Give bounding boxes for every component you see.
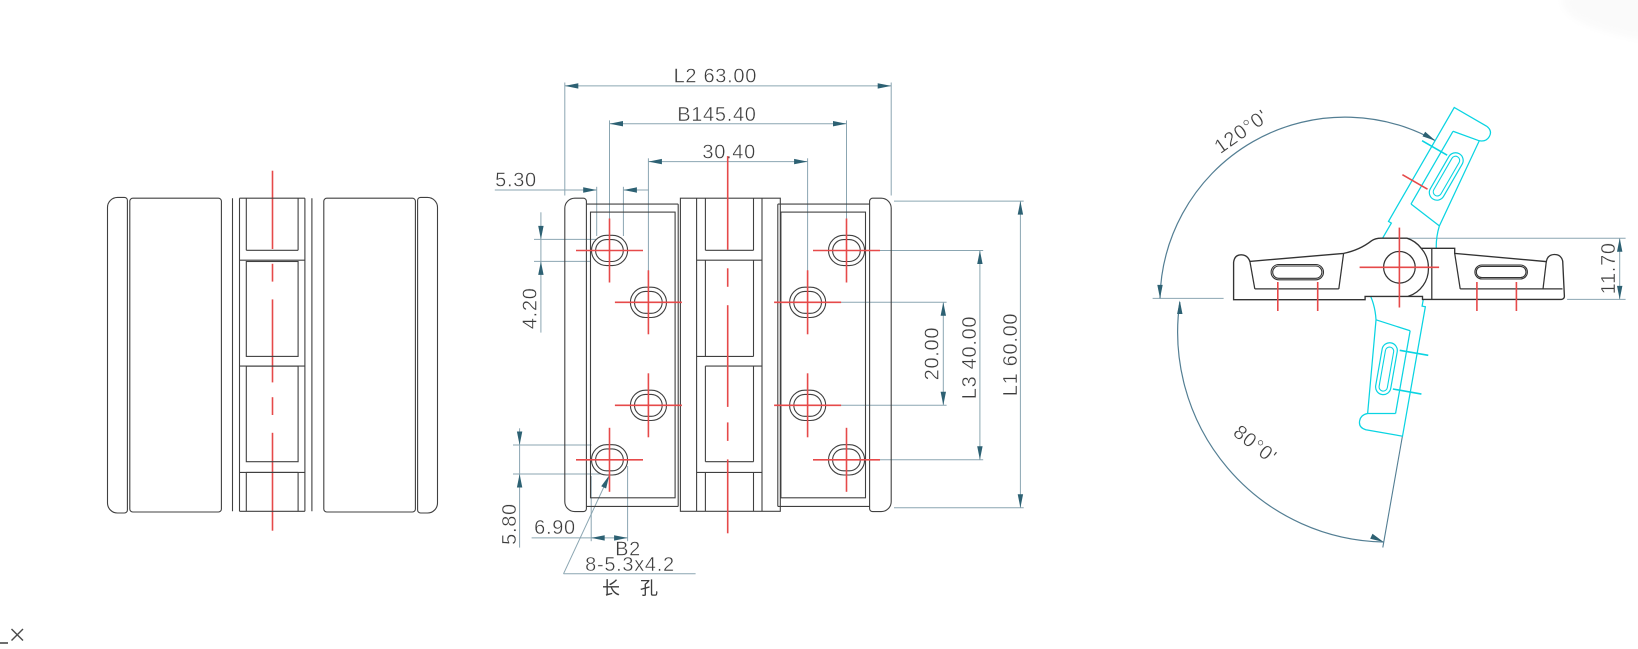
slot hole 8 outer — [829, 445, 865, 475]
dimension 30.40 line — [648, 161, 807, 163]
left view left leaf plate — [130, 198, 222, 512]
left view left plate inner line — [232, 198, 234, 511]
faint gray blob top right — [1562, 0, 1638, 40]
middle knuckle divider 6 — [697, 471, 762, 473]
middle knuckle divider 4 — [705, 365, 762, 367]
80 degree extension line (moving leaf face) — [1383, 436, 1403, 547]
dimension B145.40 line — [610, 123, 847, 125]
dimension 11.70 top extension — [1408, 237, 1626, 239]
profile left slot inner — [1273, 266, 1322, 278]
left view left edge capsule — [108, 197, 128, 513]
dimension 6.90 arrows — [591, 535, 605, 540]
dimension 30.40 arrows — [648, 159, 662, 164]
dimension 5.30 line right part — [623, 189, 649, 191]
slot hole 2 outer — [630, 287, 666, 317]
dimension 20.00 line — [942, 302, 944, 405]
middle view left capsule — [565, 198, 587, 511]
svg-text:4.20: 4.20 — [520, 287, 542, 329]
slot hole 5 inner — [833, 240, 861, 262]
dimension B145.40 left extension — [609, 120, 611, 231]
leader arrow — [601, 475, 609, 488]
dimension 11.70 arrows — [1617, 238, 1622, 252]
svg-text:5.30: 5.30 — [495, 170, 537, 192]
svg-text:8-5.3x4.2: 8-5.3x4.2 — [585, 554, 675, 576]
baseline extension left segment — [1153, 297, 1224, 299]
slot hole 5 outer — [829, 235, 865, 265]
middle knuckle red centerline — [727, 156, 729, 250]
svg-text:20.00: 20.00 — [922, 327, 944, 381]
slot hole 8 inner — [833, 449, 861, 471]
slot hole 7 red crosshair — [774, 404, 841, 406]
svg-text:孔: 孔 — [640, 579, 658, 599]
dimension L2 63.00 right extension — [890, 83, 892, 196]
dimension 30.40 right extension — [807, 158, 809, 279]
dimension L1 60.00 extension lines — [894, 200, 1024, 202]
profile red tick marks — [1277, 282, 1279, 311]
profile right slot inner — [1476, 266, 1526, 277]
80 degree arc arrows — [1177, 301, 1182, 315]
dimension B145.40 right extension — [846, 120, 848, 231]
svg-text:30.40: 30.40 — [702, 141, 756, 163]
dimension 4.20 arrows — [538, 226, 543, 240]
middle knuckle outer rect — [680, 198, 780, 511]
dimension 6.90 extension lines — [590, 476, 592, 541]
slot hole 6 inner — [794, 291, 822, 313]
left view red centerline — [272, 171, 274, 249]
slot hole 2 inner — [635, 291, 663, 313]
dimension 20.00 arrows — [941, 302, 946, 316]
middle knuckle segment verticals right — [753, 198, 755, 250]
left view top knuckle box — [245, 198, 247, 250]
cyan leaf rotated -80 degrees (open position) — [1343, 272, 1441, 438]
80 degree arc — [1178, 302, 1384, 542]
120 degree arc arrows — [1157, 285, 1162, 299]
dimension B145.40 arrows — [610, 121, 624, 126]
dimension 5.30 arrows — [583, 187, 597, 192]
slot hole 5 red crosshair — [813, 250, 880, 252]
slot hole 1 red crosshair — [576, 250, 643, 252]
svg-text:5.80: 5.80 — [499, 503, 521, 545]
left view knuckle box 2 — [246, 262, 298, 357]
left view bottom segment gap line — [240, 471, 305, 473]
dimension L1 60.00 arrows — [1018, 201, 1023, 215]
svg-text:6.90: 6.90 — [534, 517, 576, 539]
middle view right capsule — [870, 198, 892, 511]
profile right slot outer — [1475, 265, 1528, 279]
dimension L3 40.00 arrows — [977, 251, 982, 265]
profile right steep edge — [1455, 253, 1461, 289]
left view knuckle outer right line — [304, 198, 306, 511]
slot hole 6 red crosshair — [774, 301, 841, 303]
profile right ear inner slant — [1543, 262, 1546, 290]
svg-text:L2 63.00: L2 63.00 — [674, 66, 757, 88]
dimension 4.20 line — [540, 212, 542, 332]
middle view right leaf inner rect — [781, 212, 866, 498]
middle view left leaf inner rect — [591, 212, 676, 498]
slot hole 3 outer — [630, 390, 666, 420]
profile left face line — [1255, 288, 1339, 290]
dimension 11.70 line — [1619, 238, 1621, 299]
dimension L1 60.00 line — [1019, 201, 1021, 508]
hinge profile silhouette — [1234, 238, 1565, 300]
middle view right leaf plate outline — [778, 203, 870, 205]
dimension L2 63.00 arrows — [565, 83, 579, 88]
svg-text:长: 长 — [602, 579, 620, 599]
middle knuckle divider 1 — [705, 249, 753, 251]
dimension 5.30 extension lines — [596, 187, 598, 236]
slot hole 2 red crosshair — [615, 301, 682, 303]
left view top segment gap line — [240, 259, 305, 261]
dimension 5.80 extension lines — [513, 444, 592, 446]
slot hole 4 inner — [596, 449, 624, 471]
left view segment gap line 2 — [240, 365, 305, 367]
dimension 5.80 arrows — [517, 432, 522, 446]
slot hole 3 inner — [635, 394, 663, 416]
dimension 20.00 extension lines — [820, 301, 947, 303]
dimension L2 63.00 left extension — [564, 83, 566, 196]
svg-text:L3 40.00: L3 40.00 — [959, 316, 981, 399]
dimension 5.30 line left part — [495, 189, 597, 191]
svg-text:80°0': 80°0' — [1229, 421, 1281, 468]
slot hole 3 red crosshair — [615, 404, 682, 406]
leader underline — [564, 573, 696, 575]
profile right leaf left edge — [1431, 248, 1433, 299]
left view knuckle box 3 — [246, 366, 298, 462]
dimension L3 40.00 line — [979, 251, 981, 460]
svg-text:120°0': 120°0' — [1210, 106, 1272, 159]
profile pin circle — [1384, 251, 1416, 283]
svg-text:L1 60.00: L1 60.00 — [1000, 313, 1022, 396]
middle knuckle inner verticals — [696, 198, 698, 511]
dimension L3 40.00 extension lines — [866, 250, 983, 252]
profile left slot outer — [1271, 265, 1323, 280]
dimension 5.80 line — [519, 428, 521, 547]
middle knuckle divider 3 — [697, 355, 754, 357]
slot hole 7 inner — [794, 394, 822, 416]
dimension 4.20 extension lines — [534, 238, 596, 240]
left view right edge capsule — [418, 197, 438, 513]
profile left steep edge — [1339, 253, 1344, 289]
profile knuckle arc — [1408, 248, 1428, 296]
left view bottom knuckle box — [245, 472, 247, 511]
slot hole 8 red crosshair — [813, 459, 880, 461]
svg-text:B145.40: B145.40 — [677, 104, 756, 126]
120 degree arc — [1160, 117, 1436, 298]
left view knuckle bottom edge — [240, 510, 305, 512]
dimension L2 63.00 line — [565, 85, 891, 87]
leader line for slot label — [564, 478, 608, 574]
left view knuckle top edge — [240, 197, 305, 199]
middle view left leaf plate outline — [586, 203, 678, 205]
left view knuckle outer left line — [239, 198, 241, 511]
slot hole 7 outer — [790, 390, 826, 420]
profile right face line — [1460, 288, 1562, 290]
slot hole 1 inner — [596, 240, 624, 262]
left view right plate inner line — [311, 198, 313, 511]
dimension 6.90 line tail — [532, 537, 592, 539]
dimension 6.90 line — [591, 537, 627, 539]
middle knuckle divider 2 — [697, 259, 762, 261]
slot hole 4 red crosshair — [576, 459, 643, 461]
slot hole 6 outer — [790, 287, 826, 317]
dimension 30.40 left extension — [647, 158, 649, 279]
dimension 11.70 bottom extension — [1567, 298, 1626, 300]
profile left ear inner slant — [1250, 261, 1255, 289]
slot hole 1 outer — [592, 235, 628, 265]
slot hole 4 outer — [592, 445, 628, 475]
middle knuckle segment verticals left — [704, 198, 706, 250]
bottom left underscore-x mark — [0, 642, 8, 644]
middle knuckle divider 5 — [705, 461, 753, 463]
left view right leaf plate — [324, 198, 416, 512]
svg-text:11.70: 11.70 — [1598, 242, 1620, 294]
cyan leaf rotated 120 degrees (open position) — [1366, 102, 1506, 273]
profile red crosshair — [1360, 266, 1440, 268]
